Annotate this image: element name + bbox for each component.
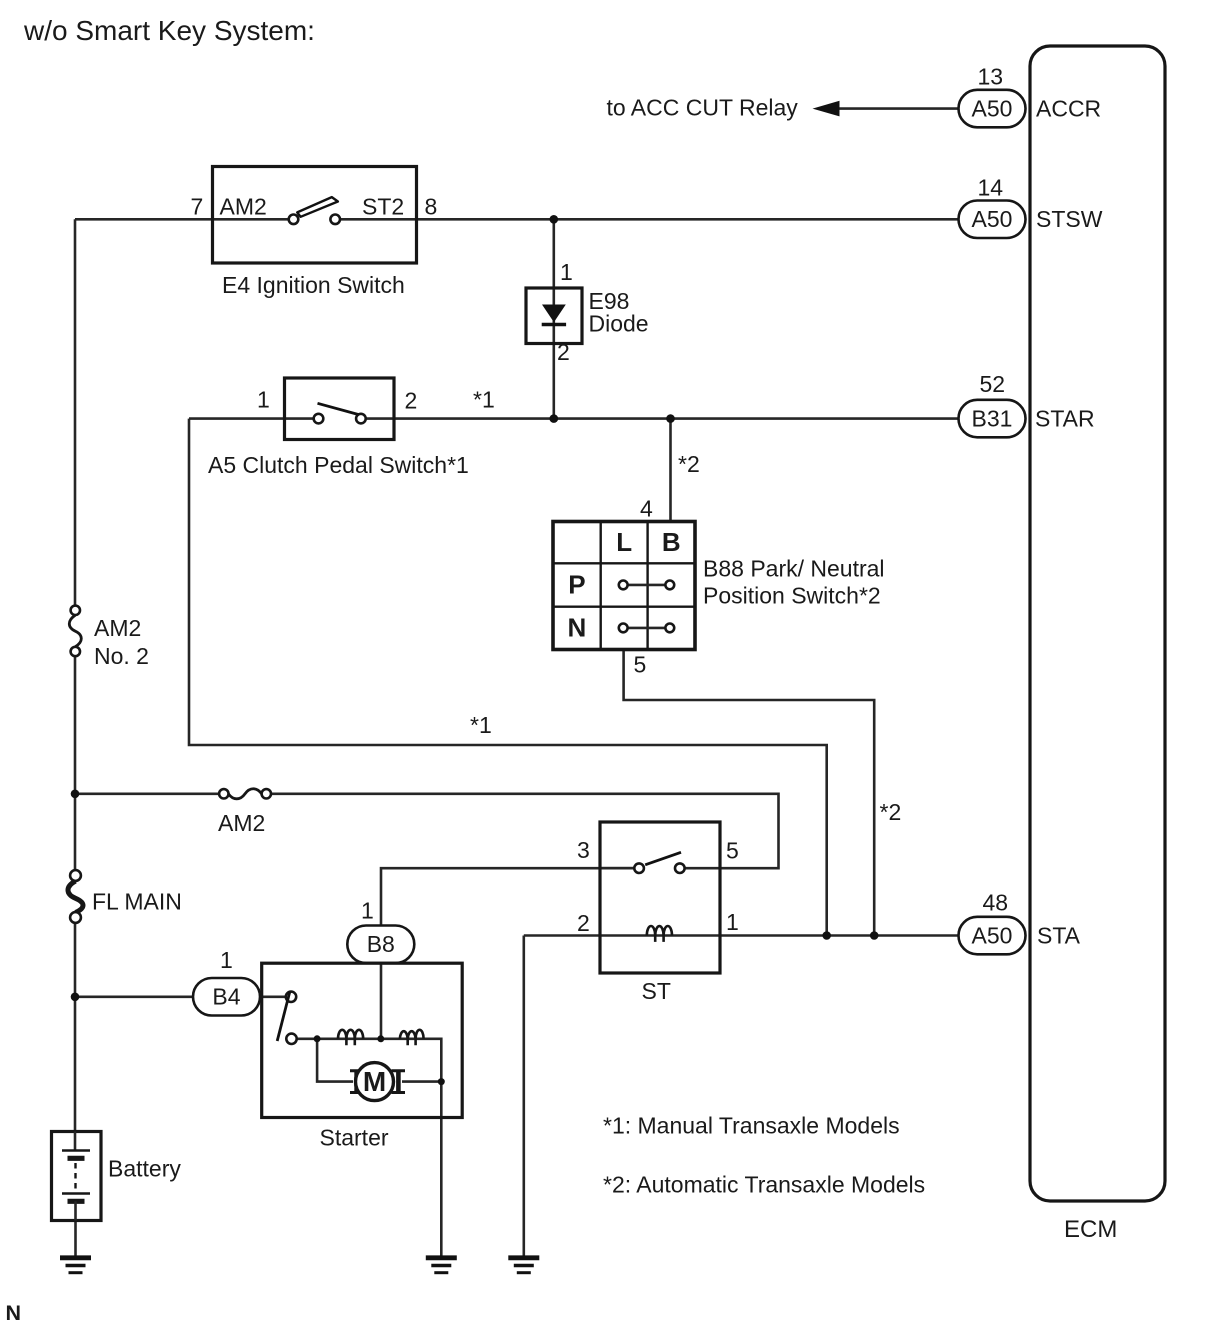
svg-text:13: 13: [978, 64, 1004, 90]
svg-text:A5 Clutch Pedal Switch*1: A5 Clutch Pedal Switch*1: [208, 452, 469, 478]
A5 switch contact left: [314, 414, 324, 424]
ground starter: [426, 1258, 457, 1273]
wire B88 pin4 vertical: [669, 419, 672, 522]
junction dot STAR/B88: [666, 414, 675, 423]
connector B4: [193, 947, 260, 1016]
ST coil: [647, 926, 672, 942]
svg-text:w/o Smart Key System:: w/o Smart Key System:: [23, 15, 315, 46]
connector B8: [347, 898, 414, 964]
wire *1 path: [189, 419, 827, 936]
svg-text:FL MAIN: FL MAIN: [92, 889, 182, 915]
arrowhead to ACC CUT Relay: [813, 101, 840, 117]
svg-text:to ACC CUT Relay: to ACC CUT Relay: [607, 95, 799, 121]
junction dot coil mid B8: [377, 1035, 384, 1042]
svg-text:1: 1: [726, 909, 739, 935]
svg-text:ECM: ECM: [1064, 1216, 1117, 1243]
svg-text:AM2: AM2: [94, 615, 141, 641]
motor brush right: [392, 1071, 406, 1093]
svg-text:P: P: [568, 570, 585, 600]
battery: [52, 1132, 182, 1221]
junction dot coil left: [314, 1035, 321, 1042]
svg-text:N: N: [568, 613, 587, 643]
svg-text:4: 4: [640, 496, 653, 522]
svg-text:Diode: Diode: [589, 311, 649, 337]
svg-text:ST2: ST2: [362, 194, 404, 220]
svg-text:*2: Automatic Transaxle Models: *2: Automatic Transaxle Models: [603, 1172, 925, 1198]
svg-text:STSW: STSW: [1036, 206, 1103, 232]
connector B31 pin52 STAR: [959, 371, 1095, 437]
fusible link FL MAIN: [68, 870, 182, 923]
svg-text:*2: *2: [678, 451, 700, 477]
wire starter coil row: [296, 1039, 441, 1257]
wire B8 into starter: [380, 963, 383, 1039]
svg-text:L: L: [616, 527, 632, 557]
starter relay ST box: [577, 822, 739, 1004]
svg-text:5: 5: [634, 652, 647, 678]
svg-text:*1: *1: [470, 712, 492, 738]
svg-text:1: 1: [560, 259, 573, 285]
starter coil 1: [338, 1030, 363, 1045]
svg-text:AM2: AM2: [220, 194, 267, 220]
E4 switch contact right: [330, 215, 340, 225]
starter switch contact bottom: [286, 1034, 296, 1044]
svg-text:*1: Manual Transaxle Models: *1: Manual Transaxle Models: [603, 1113, 900, 1139]
diode E98 box: [526, 259, 649, 365]
wire B4 row: [75, 995, 286, 998]
ST switch contact left: [634, 863, 644, 873]
svg-text:2: 2: [405, 388, 418, 414]
motor M: [356, 1063, 394, 1101]
wire STSW row left: [75, 218, 289, 221]
svg-text:5: 5: [726, 838, 739, 864]
svg-text:B8: B8: [367, 931, 395, 957]
wire starter motor row: [317, 1039, 441, 1082]
svg-text:1: 1: [257, 387, 270, 413]
A5 switch lever: [318, 403, 359, 414]
svg-text:E4 Ignition Switch: E4 Ignition Switch: [222, 272, 405, 298]
svg-text:B31: B31: [972, 405, 1013, 431]
svg-text:3: 3: [577, 837, 590, 863]
junction dot STAR/diode: [550, 414, 559, 423]
junction dot AM2 branch: [71, 790, 80, 799]
ECM box: [1030, 46, 1165, 1201]
svg-text:ST: ST: [642, 978, 671, 1004]
connector A50 pin48 STA: [959, 890, 1081, 955]
ignition switch E4 box: [191, 167, 438, 299]
wire *2 path B88 pin5: [624, 650, 875, 936]
wire AM2 branch left: [75, 792, 219, 795]
svg-text:STA: STA: [1037, 923, 1081, 949]
junction dot at diode top: [550, 215, 559, 224]
svg-text:Battery: Battery: [108, 1156, 181, 1182]
svg-text:AM2: AM2: [218, 810, 265, 836]
wire STA coil row left: [524, 934, 959, 937]
park/neutral switch B88: [553, 496, 885, 678]
svg-text:1: 1: [361, 898, 374, 924]
clutch switch A5 box: [208, 378, 495, 478]
A5 switch contact right: [356, 414, 366, 424]
svg-text:*2: *2: [880, 799, 902, 825]
fuse AM2: [218, 789, 271, 836]
svg-text:A50: A50: [972, 922, 1013, 948]
svg-text:B: B: [662, 527, 681, 557]
svg-text:A50: A50: [972, 206, 1013, 232]
svg-text:No. 2: No. 2: [94, 643, 149, 669]
starter switch contact top: [286, 992, 296, 1002]
wire ACCR arrow line: [838, 107, 959, 110]
B88 N row contacts: [628, 627, 666, 630]
wire ST pin2 to ground: [522, 936, 525, 1258]
connector A50 pin13 ACCR: [959, 64, 1102, 128]
junction dot motor right: [438, 1078, 445, 1085]
svg-text:2: 2: [577, 910, 590, 936]
svg-text:8: 8: [425, 194, 438, 220]
starter coil 2: [400, 1030, 424, 1045]
B88 P row contacts: [628, 584, 666, 587]
motor brush left: [350, 1071, 364, 1093]
svg-text:Starter: Starter: [320, 1125, 389, 1151]
starter switch lever: [277, 992, 290, 1041]
ST switch contact right: [675, 863, 685, 873]
junction dot STA *2: [870, 931, 879, 940]
E4 switch lever: [297, 197, 338, 217]
svg-text:14: 14: [978, 175, 1004, 201]
svg-text:1: 1: [220, 947, 233, 973]
connector A50 pin14 STSW: [959, 175, 1103, 239]
svg-text:B4: B4: [212, 984, 240, 1010]
svg-text:48: 48: [983, 890, 1009, 916]
diode symbol: [542, 305, 566, 323]
wire STAR row: [189, 417, 959, 420]
svg-text:A50: A50: [972, 95, 1013, 121]
wire STSW row right: [340, 218, 959, 221]
ground ST coil: [508, 1258, 539, 1273]
svg-text:7: 7: [191, 194, 204, 220]
E4 switch contact left: [289, 215, 299, 225]
svg-text:*1: *1: [473, 387, 495, 413]
fuse AM2 No.2: [69, 606, 149, 669]
svg-text:Position Switch*2: Position Switch*2: [703, 583, 881, 609]
wire ST switch inner stubs: [600, 867, 634, 870]
wire left bus vertical: [74, 219, 77, 1257]
svg-text:ACCR: ACCR: [1036, 96, 1101, 122]
ST switch lever: [645, 852, 681, 865]
wire ST pin3 to B8: [381, 868, 634, 926]
svg-text:STAR: STAR: [1035, 406, 1095, 432]
junction dot STA *1: [822, 931, 831, 940]
ground battery: [60, 1258, 91, 1273]
wire diode vertical: [552, 219, 555, 418]
junction dot B4 branch: [71, 993, 80, 1002]
starter box: [262, 963, 463, 1150]
svg-text:B88 Park/ Neutral: B88 Park/ Neutral: [703, 556, 885, 582]
svg-text:2: 2: [557, 339, 570, 365]
svg-text:M: M: [363, 1066, 386, 1097]
svg-text:52: 52: [980, 371, 1006, 397]
svg-text:N: N: [6, 1301, 22, 1325]
wire AM2 branch right to ST pin5: [271, 794, 779, 868]
